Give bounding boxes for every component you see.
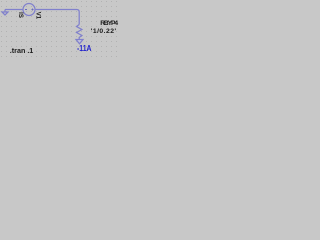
svg-text:IS: IS bbox=[17, 12, 23, 18]
wire source to corner bbox=[35, 10, 79, 25]
voltage source V1 bbox=[23, 4, 35, 16]
svg-text:.tran .1: .tran .1 bbox=[10, 48, 34, 55]
svg-text:'1/0.22': '1/0.22' bbox=[91, 28, 117, 35]
ground GND1 bbox=[2, 10, 8, 16]
plus sign of V1 bbox=[31, 8, 33, 10]
resistor RBYP4 bbox=[77, 25, 82, 40]
wire source left bbox=[5, 9, 23, 11]
svg-text:-11A: -11A bbox=[77, 44, 92, 53]
svg-text:V1: V1 bbox=[34, 12, 40, 20]
background grid bbox=[0, 0, 120, 60]
minus sign of V1 bbox=[25, 9, 27, 11]
ground GND2 bbox=[76, 40, 83, 44]
svg-text:RBYP4: RBYP4 bbox=[100, 20, 118, 27]
